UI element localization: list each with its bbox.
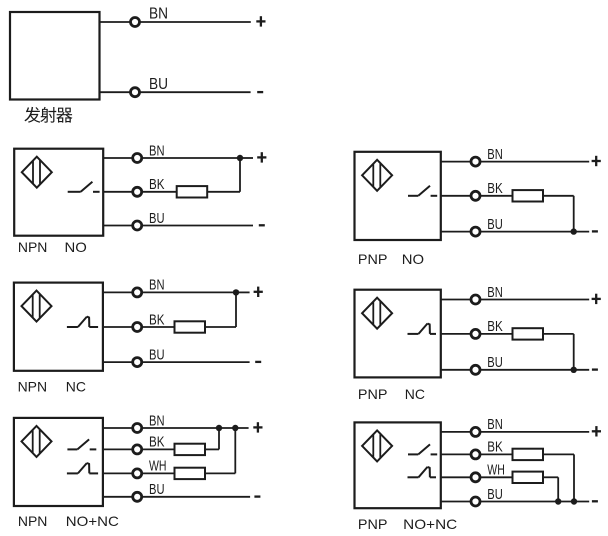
PNP NC minus terminal xyxy=(592,368,598,370)
NPN NO+NC wire BK box to terminal xyxy=(103,448,132,450)
NPN NO+NC wire WH box to terminal xyxy=(103,472,132,474)
NPN NC terminal circle BN xyxy=(133,288,142,297)
svg-text:NO+NC: NO+NC xyxy=(403,516,457,532)
NPN NO+NC wire BK resistor to riser xyxy=(205,448,219,450)
svg-text:NPN: NPN xyxy=(18,513,48,529)
NPN NO+NC wire BU box to terminal xyxy=(103,496,132,498)
PNP NO+NC terminal circle BU xyxy=(471,497,480,506)
PNP NO wire BK terminal to load resistor xyxy=(481,195,513,197)
NPN NO+NC terminal circle BK xyxy=(133,445,142,454)
svg-text:BK: BK xyxy=(149,311,165,328)
minus terminal (transmitter -) xyxy=(257,91,263,93)
svg-text:PNP: PNP xyxy=(358,516,388,532)
wire BN terminal to plus xyxy=(139,21,251,23)
PNP NO+NC plus terminal xyxy=(592,426,601,436)
PNP NO+NC terminal circle BK xyxy=(471,450,480,459)
NPN NO switch contact NO xyxy=(68,182,100,192)
NPN NC wire BU box to terminal xyxy=(103,361,132,363)
NPN NC minus terminal xyxy=(255,361,261,363)
NPN NO+NC terminal circle BN xyxy=(133,424,142,433)
PNP NO terminal circle BN xyxy=(471,157,480,166)
NPN NO riser wire BK to BN junction xyxy=(239,158,241,192)
NPN NC junction dot on BN line xyxy=(233,289,239,295)
NPN NO+NC minus terminal xyxy=(254,495,260,497)
NPN NO wire BN box to terminal xyxy=(103,157,132,159)
NPN NO load resistor on BK xyxy=(177,186,208,197)
svg-text:NPN: NPN xyxy=(18,379,47,395)
PNP NO riser wire BK down to BU junction xyxy=(573,196,575,232)
NPN NC optical sensor symbol (diamond) xyxy=(22,291,52,322)
PNP NC terminal circle BU xyxy=(471,365,480,374)
PNP NC wire BK box to terminal xyxy=(441,333,470,335)
NPN NC wire BK resistor to riser xyxy=(205,326,236,328)
svg-text:BU: BU xyxy=(487,354,503,371)
PNP NO+NC junction dot BK on BU line xyxy=(571,498,577,504)
NPN NO wire BK box to terminal xyxy=(103,191,132,193)
NPN NC sensor box xyxy=(14,283,103,371)
svg-text:BU: BU xyxy=(487,216,503,233)
svg-text:BN: BN xyxy=(149,142,165,159)
NPN NO+NC load resistor on WH xyxy=(175,468,206,479)
NPN NO wire BU box to terminal xyxy=(103,225,132,227)
PNP NO+NC wire BU box to terminal xyxy=(441,501,470,503)
NPN NO+NC wire WH terminal to load resistor xyxy=(143,472,175,474)
terminal circle BU (transmitter) xyxy=(131,88,140,97)
PNP NC optical sensor symbol (diamond) xyxy=(362,298,392,329)
NPN NO junction dot on BN line xyxy=(237,155,243,161)
NPN NO+NC switch contact NC xyxy=(67,463,98,473)
NPN NC terminal circle BK xyxy=(133,323,142,332)
svg-text:BK: BK xyxy=(487,439,503,456)
PNP NO sensor box xyxy=(355,152,441,240)
NPN NO sensor box xyxy=(14,149,103,236)
svg-text:BU: BU xyxy=(149,481,165,498)
PNP NO+NC wire BN box to terminal xyxy=(441,431,470,433)
PNP NO+NC terminal circle WH xyxy=(471,473,480,482)
PNP NO optical sensor symbol (diamond) xyxy=(362,160,392,191)
PNP NC plus terminal xyxy=(592,294,601,304)
NPN NO optical sensor symbol (diamond) xyxy=(22,157,52,188)
svg-text:BK: BK xyxy=(149,176,165,193)
NPN NO+NC wire BK terminal to load resistor xyxy=(143,448,175,450)
PNP NC sensor box xyxy=(355,290,441,378)
PNP NO+NC wire BN terminal to plus xyxy=(481,431,589,433)
transmitter box 发射器 xyxy=(10,12,100,100)
NPN NO terminal circle BU xyxy=(133,221,142,230)
NPN NO plus terminal xyxy=(257,152,266,162)
svg-text:BK: BK xyxy=(487,180,503,197)
svg-text:NPN: NPN xyxy=(18,239,48,255)
NPN NC wire BK box to terminal xyxy=(103,326,132,328)
PNP NO+NC load resistor on WH xyxy=(513,472,544,483)
PNP NO wire BN terminal to plus xyxy=(481,161,589,163)
PNP NO+NC terminal circle BN xyxy=(471,427,480,436)
svg-text:PNP: PNP xyxy=(358,251,388,267)
NPN NO wire BN terminal to junction xyxy=(143,157,240,159)
NPN NO minus terminal xyxy=(259,224,265,226)
PNP NO+NC wire BK resistor to riser xyxy=(543,453,574,455)
NPN NO terminal circle BN xyxy=(133,154,142,163)
svg-text:NC: NC xyxy=(66,379,86,395)
NPN NO+NC plus terminal xyxy=(253,422,262,432)
NPN NC plus terminal xyxy=(254,287,263,297)
NPN NC wire BU terminal to minus xyxy=(143,361,250,363)
NPN NO+NC riser wire WH to BN junction xyxy=(234,428,236,473)
NPN NC switch contact NC xyxy=(67,317,98,327)
PNP NO junction dot on BU line xyxy=(571,228,577,234)
PNP NO+NC optical sensor symbol (diamond) xyxy=(362,430,392,461)
PNP NC switch contact NC xyxy=(408,324,437,334)
PNP NO+NC wire BK box to terminal xyxy=(441,453,470,455)
NPN NC riser wire BK to BN junction xyxy=(235,292,237,327)
NPN NO+NC terminal circle BU xyxy=(133,492,142,501)
NPN NC terminal circle BU xyxy=(133,358,142,367)
NPN NC load resistor on BK xyxy=(175,321,206,332)
PNP NC wire BN box to terminal xyxy=(441,299,470,301)
svg-text:NO: NO xyxy=(402,251,424,267)
svg-text:PNP: PNP xyxy=(358,386,388,402)
svg-text:BU: BU xyxy=(149,346,165,363)
NPN NO wire BN junction to plus xyxy=(240,157,253,159)
PNP NC junction dot on BU line xyxy=(571,367,577,373)
PNP NC wire BU box to terminal xyxy=(441,369,470,371)
PNP NO+NC riser wire BK down to BU junction xyxy=(573,454,575,501)
PNP NC wire BK terminal to load resistor xyxy=(481,333,513,335)
svg-text:WH: WH xyxy=(149,458,167,475)
PNP NC wire BK resistor to riser xyxy=(543,333,574,335)
PNP NO+NC switch contact NO xyxy=(408,444,437,454)
NPN NO+NC junction dot WH on BN line xyxy=(232,425,238,431)
PNP NO terminal circle BK xyxy=(471,191,480,200)
wire BN from transmitter to terminal xyxy=(100,21,131,23)
NPN NO wire BU terminal to minus xyxy=(143,225,253,227)
PNP NC wire BN terminal to plus xyxy=(481,299,589,301)
svg-text:NC: NC xyxy=(405,386,425,402)
NPN NC wire BK terminal to load resistor xyxy=(143,326,175,328)
svg-text:WH: WH xyxy=(487,462,505,479)
svg-text:BU: BU xyxy=(149,210,165,227)
PNP NO+NC wire WH terminal to load resistor xyxy=(481,476,513,478)
PNP NO+NC wire BK terminal to load resistor xyxy=(481,453,513,455)
PNP NC load resistor on BK xyxy=(513,328,544,339)
PNP NO+NC wire BU terminal to minus xyxy=(481,501,589,503)
NPN NO+NC riser wire BK to BN junction xyxy=(218,428,220,449)
caption 发射器 (transmitter label) xyxy=(24,107,72,123)
PNP NO terminal circle BU xyxy=(471,227,480,236)
svg-text:BN: BN xyxy=(149,277,165,294)
NPN NO+NC sensor box xyxy=(14,418,103,506)
NPN NO+NC wire BU terminal to minus xyxy=(143,496,250,498)
PNP NO minus terminal xyxy=(592,230,598,232)
NPN NO+NC load resistor on BK xyxy=(175,444,206,455)
svg-text:BN: BN xyxy=(487,284,503,301)
PNP NO plus terminal xyxy=(592,156,601,166)
NPN NC wire BN box to terminal xyxy=(103,291,132,293)
svg-text:BK: BK xyxy=(487,318,503,335)
PNP NO+NC switch contact NC xyxy=(408,467,437,477)
PNP NO switch contact NO xyxy=(408,186,437,196)
NPN NO+NC terminal circle WH xyxy=(133,469,142,478)
PNP NO+NC wire WH box to terminal xyxy=(441,476,470,478)
PNP NO wire BN box to terminal xyxy=(441,161,470,163)
PNP NO+NC wire WH resistor to riser xyxy=(543,476,558,478)
svg-text:BK: BK xyxy=(149,434,165,451)
plus terminal (transmitter +) xyxy=(256,16,265,26)
NPN NC wire BN terminal to junction xyxy=(143,291,236,293)
NPN NO+NC junction dot BK on BN line xyxy=(216,425,222,431)
PNP NO+NC sensor box xyxy=(355,422,441,508)
PNP NO wire BU terminal to minus xyxy=(481,231,589,233)
NPN NO wire BK resistor to riser xyxy=(207,191,240,193)
svg-text:BN: BN xyxy=(487,416,503,433)
PNP NO+NC load resistor on BK xyxy=(513,449,544,460)
NPN NO+NC wire BN terminal to plus xyxy=(143,427,249,429)
PNP NO+NC minus terminal xyxy=(592,500,598,502)
PNP NO wire BK box to terminal xyxy=(441,195,470,197)
wire BU terminal to minus xyxy=(139,91,250,93)
svg-text:BN: BN xyxy=(149,412,165,429)
PNP NC riser wire BK down to BU junction xyxy=(573,334,575,370)
svg-text:BN: BN xyxy=(487,146,503,163)
NPN NO+NC wire BN box to terminal xyxy=(103,427,132,429)
PNP NO wire BK resistor to riser xyxy=(543,195,574,197)
NPN NO+NC wire WH resistor to riser xyxy=(205,472,235,474)
NPN NO terminal circle BK xyxy=(133,187,142,196)
PNP NC terminal circle BN xyxy=(471,295,480,304)
NPN NO+NC switch contact NO xyxy=(67,439,96,449)
PNP NO wire BU box to terminal xyxy=(441,231,470,233)
NPN NO wire BK terminal to load resistor xyxy=(143,191,177,193)
terminal circle BN (transmitter) xyxy=(131,18,140,27)
svg-text:NO: NO xyxy=(65,239,87,255)
svg-text:BU: BU xyxy=(149,76,168,93)
svg-text:BN: BN xyxy=(149,6,168,23)
svg-text:NO+NC: NO+NC xyxy=(66,513,119,529)
PNP NO+NC riser wire WH down to BU junction xyxy=(557,477,559,501)
NPN NO+NC optical sensor symbol (diamond) xyxy=(22,426,52,457)
PNP NO load resistor on BK xyxy=(513,190,544,201)
PNP NC terminal circle BK xyxy=(471,329,480,338)
NPN NC wire BN junction to plus xyxy=(236,291,250,293)
PNP NC wire BU terminal to minus xyxy=(481,369,589,371)
PNP NO+NC junction dot WH on BU line xyxy=(555,498,561,504)
svg-text:BU: BU xyxy=(487,486,503,503)
wire BU from transmitter to terminal xyxy=(100,91,131,93)
